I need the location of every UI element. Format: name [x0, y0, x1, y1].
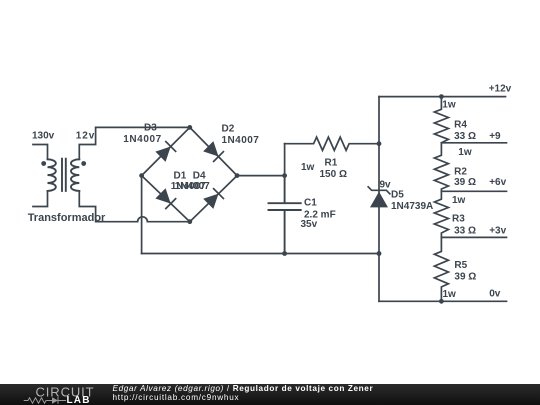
- node ladder bottom junction: [439, 299, 444, 304]
- resistor R5: [434, 237, 448, 301]
- svg-text:+3v: +3v: [489, 225, 506, 236]
- diode D4: [203, 188, 223, 208]
- svg-text:R4: R4: [454, 120, 467, 131]
- svg-text:1N4739A: 1N4739A: [391, 201, 433, 212]
- capacitor C1: [269, 176, 301, 254]
- svg-text:0v: 0v: [489, 289, 501, 300]
- svg-text:+12v: +12v: [489, 84, 512, 95]
- wire +12v top rail: [379, 96, 506, 98]
- zener diode D5: [368, 187, 390, 208]
- node bridge top junction: [187, 125, 192, 130]
- svg-text:R5: R5: [454, 260, 467, 271]
- footer credit line 2: [113, 393, 240, 402]
- wire secondary bottom to bridge bottom with hop: [79, 191, 190, 222]
- transformer core: [62, 159, 66, 191]
- wire bridge left node down: [141, 176, 143, 254]
- svg-text:39 Ω: 39 Ω: [454, 177, 476, 188]
- diode D1: [155, 188, 175, 208]
- svg-text:33 Ω: 33 Ω: [454, 225, 476, 236]
- wire 0v rail: [379, 300, 507, 302]
- wire +3v tap: [441, 236, 506, 238]
- node bridge bottom junction: [187, 219, 192, 224]
- svg-text:1N4007: 1N4007: [123, 134, 162, 145]
- transformer T1 secondary winding: [71, 159, 79, 191]
- svg-text:D3: D3: [144, 123, 157, 134]
- node rail bottom-rail junction: [377, 251, 382, 256]
- wire secondary top to bridge top: [79, 127, 190, 159]
- svg-text:150 Ω: 150 Ω: [320, 169, 347, 180]
- svg-text:LAB: LAB: [67, 395, 91, 405]
- svg-text:1w: 1w: [442, 100, 456, 111]
- svg-text:1N4007: 1N4007: [222, 135, 260, 146]
- node C1 top junction: [282, 173, 287, 178]
- transformer T1 primary winding: [48, 159, 56, 191]
- svg-text:C1: C1: [304, 197, 317, 208]
- svg-text:39 Ω: 39 Ω: [454, 271, 476, 282]
- svg-text:1N4007: 1N4007: [175, 181, 210, 192]
- svg-text:1w: 1w: [458, 147, 472, 158]
- transformer secondary phase dot: [81, 161, 86, 166]
- logo circuit glyph wire with resistor and diode: [24, 398, 66, 404]
- node C1 bottom junction: [282, 251, 287, 256]
- svg-text:R2: R2: [454, 167, 467, 178]
- footer credit line 1: [113, 384, 374, 393]
- svg-text:9v: 9v: [380, 180, 392, 191]
- svg-text:+9: +9: [489, 131, 501, 142]
- diode D3: [155, 141, 175, 161]
- wire C1 junction up to R1 level: [284, 144, 286, 176]
- diode D2: [203, 141, 223, 161]
- resistor R1: [285, 137, 379, 150]
- svg-text:1w: 1w: [452, 195, 466, 206]
- resistor R2: [434, 143, 448, 192]
- node ladder top junction: [439, 94, 444, 99]
- svg-text:33 Ω: 33 Ω: [454, 131, 476, 142]
- wire +6v tap: [441, 190, 506, 192]
- svg-text:R3: R3: [452, 213, 465, 224]
- wire primary top stub: [33, 145, 48, 160]
- wire zener rail vertical: [378, 97, 380, 302]
- svg-text:D2: D2: [222, 123, 235, 134]
- CircuitLab logo: [0, 384, 110, 405]
- svg-text:1w: 1w: [301, 162, 315, 173]
- wire bridge right node to C1 junction: [237, 175, 285, 177]
- svg-text:+6v: +6v: [489, 177, 506, 188]
- node R1 output junction: [377, 141, 382, 146]
- svg-text:130v: 130v: [32, 131, 55, 142]
- node bridge right junction: [235, 173, 240, 178]
- svg-text:1w: 1w: [443, 289, 457, 300]
- bridge diamond edges: [142, 127, 238, 221]
- wire primary bottom stub: [33, 191, 48, 207]
- svg-text:Transformador: Transformador: [28, 212, 106, 224]
- svg-text:D5: D5: [391, 190, 404, 201]
- wire bottom rail: [142, 253, 379, 255]
- wire +9 tap: [441, 142, 506, 144]
- svg-text:R1: R1: [325, 158, 338, 169]
- resistor R3: [434, 191, 448, 237]
- svg-text:35v: 35v: [301, 219, 318, 230]
- transformer primary phase dot: [41, 161, 46, 166]
- svg-text:12v: 12v: [76, 131, 95, 142]
- resistor R4: [434, 97, 448, 143]
- footer bar: [0, 384, 540, 405]
- node bridge left junction: [139, 173, 144, 178]
